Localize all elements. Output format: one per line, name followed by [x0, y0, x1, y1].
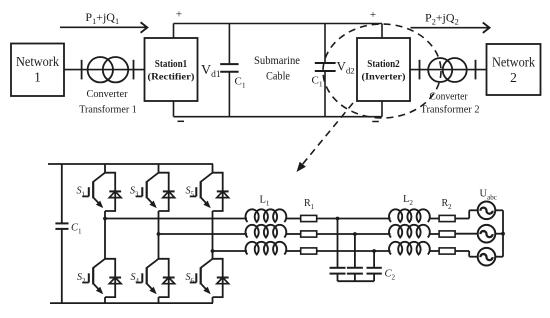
svg-text:Converter: Converter: [430, 91, 468, 103]
svg-text:Station1: Station1: [155, 59, 188, 70]
svg-text:Network: Network: [16, 54, 59, 69]
svg-text:Transformer 1: Transformer 1: [79, 103, 137, 115]
svg-text:P2+jQ2: P2+jQ2: [425, 11, 459, 27]
svg-text:Transformer 2: Transformer 2: [421, 104, 480, 116]
svg-text:Submarine: Submarine: [254, 53, 300, 67]
svg-text:P1+jQ1: P1+jQ1: [85, 10, 119, 26]
svg-text:2: 2: [510, 70, 517, 85]
svg-text:Cable: Cable: [266, 69, 290, 83]
svg-text:(Inverter): (Inverter): [362, 72, 406, 83]
svg-text:+: +: [176, 9, 182, 21]
svg-text:Network: Network: [492, 55, 535, 70]
svg-text:(Rectifier): (Rectifier): [148, 72, 195, 83]
svg-text:Converter: Converter: [87, 88, 128, 100]
svg-text:+: +: [370, 9, 376, 21]
svg-text:1: 1: [34, 70, 41, 85]
svg-text:Station2: Station2: [367, 59, 400, 70]
